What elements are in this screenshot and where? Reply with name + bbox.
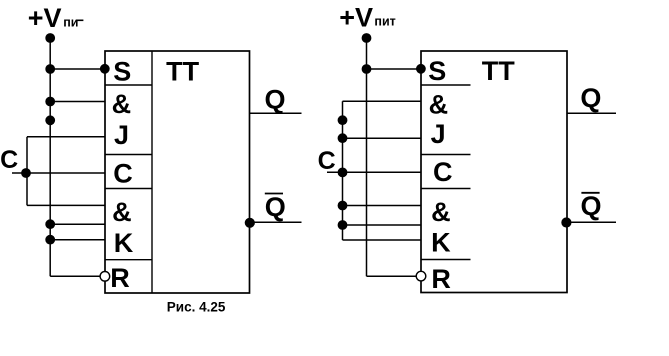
junction dot branch/& wire (right) xyxy=(338,201,348,211)
svg-text:S: S xyxy=(113,57,131,87)
U1 pin-label column divider xyxy=(151,51,153,293)
U2 cell separator J/C xyxy=(421,154,471,156)
svg-text:K: K xyxy=(114,228,134,258)
overbar of notQ label (left) xyxy=(265,193,283,195)
wire: bus to K input (left) xyxy=(50,223,105,225)
wire: branch to K-side & input (right) xyxy=(343,205,422,207)
wire: C-bus to K-side & input (left) xyxy=(27,204,105,206)
junction dot C wire at branch bus (right) xyxy=(338,168,348,178)
svg-text:C: C xyxy=(433,157,453,187)
junction dot branch/J wire (right) xyxy=(338,133,348,143)
U1 cell separator K/R xyxy=(105,259,152,261)
U1 cell separator C/&K xyxy=(105,188,152,190)
svg-text:Q: Q xyxy=(580,83,601,113)
svg-text:R: R xyxy=(431,264,451,294)
svg-text:C: C xyxy=(113,158,133,188)
junction dot notQ pin (left) xyxy=(245,218,255,228)
junction dot S pin (right) xyxy=(416,64,426,74)
svg-text:&: & xyxy=(112,197,132,227)
wire: bus to R input (right) xyxy=(367,275,417,277)
U1 cell separator S/&J xyxy=(105,84,152,86)
wire: branch bus to J-side & input (right) xyxy=(343,100,422,102)
svg-text:J: J xyxy=(431,119,446,149)
junction dot bus/K2 wire (left) xyxy=(45,235,55,245)
wire: C input (left) xyxy=(12,172,105,174)
svg-text:R: R xyxy=(110,263,130,293)
junction dot bus/& wire (left) xyxy=(45,97,55,107)
svg-text:пи: пи xyxy=(63,15,78,29)
junction dot notQ pin (right) xyxy=(561,217,571,227)
wire: C input (right) xyxy=(327,171,421,173)
junction dot S pin (left) xyxy=(100,64,110,74)
U2 cell separator K/R xyxy=(421,259,471,261)
svg-text:J: J xyxy=(114,120,129,150)
output wire Q (left) xyxy=(250,112,302,114)
svg-text:K: K xyxy=(431,227,451,257)
junction dot bus/S wire (right) xyxy=(362,64,372,74)
U1 cell separator J/C xyxy=(105,154,152,156)
svg-text:+V: +V xyxy=(28,3,62,33)
flip-flop U2 body (right box) xyxy=(421,51,567,293)
output wire notQ (left) xyxy=(250,221,302,223)
wire: bus to S input (right) xyxy=(367,68,421,70)
junction dot C wire at C-bus (left) xyxy=(21,168,31,178)
wire: C vertical bus (left) xyxy=(26,137,28,206)
wire: bus to second K input (left) xyxy=(50,239,105,241)
wire: branch vertical bus (right) xyxy=(342,101,344,240)
svg-text:S: S xyxy=(428,56,446,86)
junction dot below +V label (left) xyxy=(45,33,55,43)
wire: +V vertical bus (left) xyxy=(49,38,51,276)
svg-text:+V: +V xyxy=(339,2,373,32)
U2 cell separator C/&K xyxy=(421,188,471,190)
svg-text:пит: пит xyxy=(374,15,395,29)
wire: bus to R input (left) xyxy=(50,275,100,277)
svg-text:&: & xyxy=(429,89,449,119)
junction dot bus/S wire (left) xyxy=(45,64,55,74)
junction dot on bus (left) xyxy=(45,115,55,125)
junction dot on branch bus (right) xyxy=(338,115,348,125)
output wire notQ (right) xyxy=(567,221,616,223)
svg-text:TT: TT xyxy=(166,57,199,87)
svg-text:TT: TT xyxy=(482,56,515,86)
wire: branch to J input (right) xyxy=(343,137,422,139)
R pin active-low circle (left) xyxy=(100,272,110,282)
U2 cell separator S/&J xyxy=(421,84,471,86)
svg-text:C: C xyxy=(318,147,336,175)
overbar of notQ label (right) xyxy=(581,192,599,194)
flip-flop U1 body (left box) xyxy=(105,51,250,293)
wire: branch to second K input (right) xyxy=(343,239,422,241)
R pin active-low circle (right) xyxy=(416,271,426,281)
svg-text:&: & xyxy=(112,89,132,119)
svg-text:Рис. 4.25: Рис. 4.25 xyxy=(167,299,226,314)
wire: C-bus to J input (left) xyxy=(27,136,105,138)
svg-text:Q: Q xyxy=(265,85,286,115)
wire: branch to K input (right) xyxy=(343,224,422,226)
junction dot below +V label (right) xyxy=(362,33,372,43)
wire: bus to S input (left) xyxy=(50,68,105,70)
svg-text:&: & xyxy=(431,197,451,227)
wire: +V vertical bus (right) xyxy=(366,38,368,276)
svg-text:Q: Q xyxy=(581,191,602,221)
wire: bus to J-side & input (left) xyxy=(50,101,105,103)
svg-text:Q: Q xyxy=(265,192,286,222)
junction dot branch/K wire (right) xyxy=(338,220,348,230)
svg-text:C: C xyxy=(0,146,18,174)
output wire Q (right) xyxy=(567,112,616,114)
junction dot bus/K wire (left) xyxy=(45,219,55,229)
